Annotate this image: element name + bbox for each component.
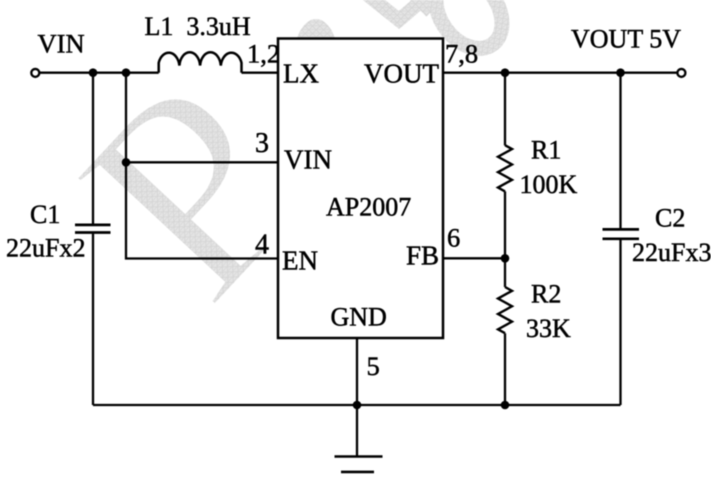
pin label VIN — [284, 145, 332, 175]
junction FB node — [501, 254, 510, 263]
label C1 — [30, 200, 60, 229]
inductor L1 — [159, 52, 242, 72]
svg-text:VIN: VIN — [38, 29, 85, 59]
label R2 — [531, 280, 561, 309]
svg-text:6: 6 — [447, 223, 460, 253]
pin label FB — [406, 241, 439, 271]
label R1 — [531, 136, 561, 165]
svg-text:22uFx3: 22uFx3 — [632, 238, 711, 267]
label 33K — [526, 314, 571, 343]
wire C1 to ground bus — [92, 234, 94, 405]
svg-text:L1 3.3uH: L1 3.3uH — [145, 12, 251, 41]
label 22uFx2 — [6, 234, 85, 263]
pin number 7,8 — [445, 39, 478, 69]
wire branch vertical to EN — [126, 73, 278, 259]
svg-text:33K: 33K — [526, 314, 571, 343]
pin label EN — [282, 246, 318, 276]
pin number 3 — [255, 128, 269, 159]
ground — [335, 405, 383, 472]
terminal VOUT output — [677, 69, 685, 77]
svg-text:3: 3 — [255, 128, 269, 159]
pin number 5 — [367, 351, 380, 381]
junction ground bus GND — [353, 401, 362, 410]
label VIN — [38, 29, 85, 59]
wire L1 to LX pin — [242, 72, 279, 74]
svg-text:22uFx2: 22uFx2 — [6, 234, 85, 263]
svg-text:1,2: 1,2 — [247, 39, 280, 69]
pin number 1,2 — [247, 39, 280, 69]
junction VIN pin branch — [122, 158, 131, 167]
label 22uFx3 — [632, 238, 711, 267]
svg-text:VOUT 5V: VOUT 5V — [571, 25, 681, 54]
label AP2007 — [326, 193, 411, 222]
wire C2 top lead — [619, 73, 621, 229]
label L1 3.3uH — [145, 12, 251, 41]
svg-text:GND: GND — [331, 303, 387, 332]
IC AP2007 body — [278, 39, 443, 339]
junction ground bus R2 — [501, 401, 510, 410]
svg-text:EN: EN — [282, 246, 318, 276]
capacitor C1 — [75, 225, 111, 233]
wire R2 bottom lead — [504, 333, 506, 405]
wire FB pin — [443, 257, 505, 259]
svg-text:R1: R1 — [531, 136, 561, 165]
svg-text:VIN: VIN — [284, 145, 332, 175]
junction VOUT-R1 — [501, 68, 510, 77]
resistor R2 — [498, 287, 512, 333]
svg-text:AP2007: AP2007 — [326, 193, 411, 222]
svg-text:4: 4 — [255, 230, 269, 261]
svg-text:100K: 100K — [520, 170, 578, 199]
svg-text:C1: C1 — [30, 200, 60, 229]
resistor R1 — [498, 145, 512, 191]
pin number 6 — [447, 223, 460, 253]
pin label VOUT — [364, 59, 439, 89]
label 100K — [520, 170, 578, 199]
svg-text:7,8: 7,8 — [445, 39, 478, 69]
terminal VIN input — [31, 69, 39, 77]
capacitor C2 — [603, 229, 640, 238]
wire R1 bottom to FB node — [504, 191, 506, 287]
wire GND pin — [356, 338, 358, 405]
wire R1 top lead — [504, 73, 506, 146]
svg-text:C2: C2 — [655, 204, 685, 233]
wire ground bus — [93, 404, 621, 406]
svg-text:R2: R2 — [531, 280, 561, 309]
svg-text:LX: LX — [283, 59, 319, 89]
wire VOUT rail — [443, 72, 677, 74]
svg-text:FB: FB — [406, 241, 439, 271]
svg-text:5: 5 — [367, 351, 380, 381]
svg-text:VOUT: VOUT — [364, 59, 439, 89]
wire C1 vertical — [92, 73, 94, 224]
label C2 — [655, 204, 685, 233]
wire VIN pin — [126, 161, 278, 163]
junction VIN-branch — [122, 68, 131, 77]
wire C2 bottom lead — [619, 240, 621, 405]
wire VIN top rail — [39, 72, 159, 74]
junction VIN-C1 — [89, 68, 98, 77]
junction VOUT-C2 — [616, 68, 625, 77]
pin label LX — [283, 59, 319, 89]
pin label GND — [331, 303, 387, 332]
watermark Pre — [19, 0, 515, 357]
pin number 4 — [255, 230, 269, 261]
label VOUT 5V — [571, 25, 681, 54]
